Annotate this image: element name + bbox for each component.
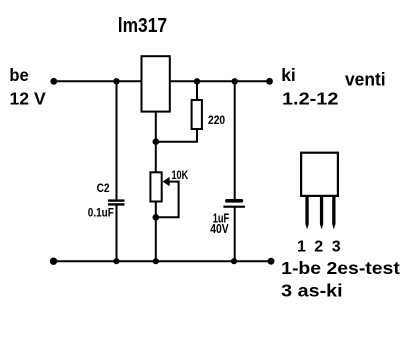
package pin 3 leg <box>332 197 335 230</box>
junction input terminal top left <box>50 78 57 85</box>
svg-text:C2: C2 <box>97 183 110 195</box>
svg-text:1: 1 <box>297 239 306 256</box>
wire left vertical branch C2 bottom to rail <box>116 205 118 261</box>
svg-text:be: be <box>9 65 29 85</box>
wire potentiometer wiper to bottom terminal <box>157 182 179 218</box>
junction pot bottom with wiper <box>153 214 160 221</box>
capacitor C1 bottom plate <box>223 206 245 208</box>
svg-text:1-be 2es-test: 1-be 2es-test <box>281 258 400 278</box>
potentiometer R2 10K body <box>150 172 161 201</box>
junction ground terminal bottom right <box>268 258 275 265</box>
junction ADJ node <box>153 138 160 145</box>
junction top rail x C2 branch <box>113 78 119 84</box>
junction bottom rail x C2 branch <box>113 258 119 264</box>
package pin 2 leg <box>320 197 323 230</box>
wire resistor R1 top pin to output rail <box>196 81 198 99</box>
svg-text:2: 2 <box>314 239 323 256</box>
wire LM317 ADJ pin down to potentiometer top <box>155 112 157 172</box>
svg-text:40V: 40V <box>210 222 229 236</box>
junction top rail x C1 branch <box>232 78 238 84</box>
capacitor C1 top plate (thick) <box>225 199 243 203</box>
capacitor C2 top plate <box>108 199 125 201</box>
package pin 1 leg <box>305 197 308 230</box>
junction ground terminal bottom left <box>50 258 57 265</box>
junction output terminal top right <box>266 78 273 85</box>
resistor R1 220 <box>192 100 202 129</box>
svg-text:0.1uF: 0.1uF <box>88 208 114 220</box>
svg-text:venti: venti <box>345 70 386 90</box>
wire potentiometer bottom to ground rail <box>155 202 157 261</box>
potentiometer wiper arrowhead <box>163 177 170 186</box>
junction top rail x R1 branch <box>194 78 200 84</box>
junction bottom rail x C1 branch <box>231 258 237 264</box>
svg-text:220: 220 <box>208 115 225 127</box>
svg-text:1.2-12: 1.2-12 <box>282 88 339 108</box>
wire resistor R1 bottom pin to ADJ node <box>156 130 197 142</box>
capacitor C2 bottom plate <box>108 203 125 205</box>
wire right vertical branch to C1 top <box>234 81 236 199</box>
svg-text:3: 3 <box>332 239 341 256</box>
wire right vertical branch C1 bottom to rail <box>234 207 236 261</box>
svg-text:10K: 10K <box>172 170 189 182</box>
svg-text:3 as-ki: 3 as-ki <box>281 280 342 300</box>
wire top rail (input to output, net VIN/VOUT) <box>54 80 270 82</box>
svg-text:12 V: 12 V <box>10 88 47 108</box>
transistor package outline (TO-220 case drawing) <box>301 153 338 196</box>
wire bottom rail (ground return) <box>53 260 271 262</box>
junction bottom rail x pot branch <box>153 258 159 264</box>
svg-text:ki: ki <box>281 65 296 85</box>
regulator IC U1 lm317 body <box>142 56 170 111</box>
svg-text:lm317: lm317 <box>118 15 167 37</box>
wire left vertical branch to C2 top <box>116 81 118 199</box>
